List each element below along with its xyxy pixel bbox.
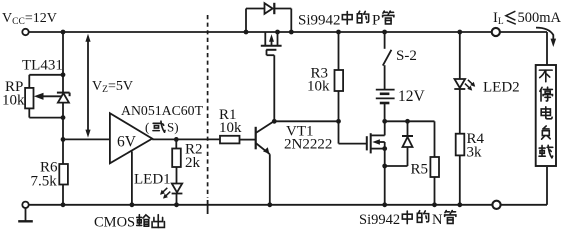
svg-text:500mA: 500mA: [518, 10, 562, 26]
wire: P-MOSFET gate lead jog: [266, 50, 268, 55]
wire: drain node right to R5: [385, 120, 435, 122]
svg-text:2N2222: 2N2222: [284, 137, 332, 153]
wire: comparator output to node: [152, 138, 176, 140]
load current direction arrow: [536, 28, 553, 41]
svg-text:TL431: TL431: [22, 58, 63, 74]
svg-text:6V: 6V: [117, 134, 137, 151]
node: D2 cathode junction: [405, 119, 410, 124]
wire: R4 bottom to ground rail: [459, 155, 461, 204]
label load text (vertical: bu ting dian fu zai): [539, 70, 552, 82]
svg-text:(: (: [145, 120, 149, 135]
wire: output node down to R2: [175, 139, 177, 148]
node: comparator output junction: [174, 137, 179, 142]
svg-text:CMOS: CMOS: [94, 215, 135, 231]
wire: drain node corner down to R5: [434, 121, 436, 157]
svg-text:LED1: LED1: [134, 172, 171, 188]
svg-text:Si9942: Si9942: [359, 212, 400, 228]
ground symbol: [25, 208, 27, 221]
node: VT1 emitter on ground rail: [267, 202, 272, 207]
node: N-MOSFET source on ground rail: [382, 202, 387, 207]
node: rail junction P-MOSFET drain stub: [275, 30, 280, 35]
LED LED2: [455, 79, 466, 88]
svg-text:7.5k: 7.5k: [31, 174, 58, 190]
diode D2 (body/protection): [407, 121, 409, 136]
wire: reference node down to R6: [62, 139, 64, 164]
switch S-2: [384, 32, 386, 49]
potentiometer RP body: [25, 88, 33, 109]
wire: battery minus to drain node: [384, 103, 386, 121]
wire: reference node to comparator input: [63, 138, 110, 140]
svg-text:AN051AC60T: AN051AC60T: [121, 103, 204, 118]
node: rail junction diode cathode return: [289, 30, 294, 35]
wire: rail down to TL431 cathode node: [62, 32, 64, 75]
terminal output right: [492, 201, 500, 209]
wire: N-MOSFET source down to ground rail: [384, 149, 386, 205]
wire: comparator ground pin: [131, 151, 133, 204]
wire: rail down to R3: [338, 32, 340, 70]
node: reference node (TL431/R6/comparator input): [61, 137, 66, 142]
transistor Q2 Si9942 N-channel MOSFET: [367, 133, 371, 153]
potentiometer RP wiper arrow: [42, 95, 62, 97]
svg-text:VCC=12V: VCC=12V: [2, 11, 57, 27]
wire: R5 bottom to ground rail: [434, 177, 436, 205]
node: VT1 collector junction: [272, 119, 277, 124]
svg-text:2k: 2k: [185, 155, 201, 171]
battery B1 12V: [384, 65, 386, 89]
svg-text:S-2: S-2: [396, 48, 417, 64]
wire: +12V top rail: [29, 31, 547, 33]
wire: RP bottom to TL431 anode line: [28, 108, 30, 117]
svg-text:IL: IL: [493, 10, 504, 27]
wire: R1 to VT1 base: [240, 139, 256, 141]
resistor R5 body: [430, 157, 439, 177]
node: rail junction to TL431 branch: [61, 30, 66, 35]
terminal ground left: [22, 202, 28, 208]
load box (uninterrupted load): [536, 65, 556, 166]
node: TL431 cathode junction: [61, 72, 66, 77]
node: R3 bottom junction: [336, 119, 341, 124]
svg-text:Si9942: Si9942: [298, 13, 341, 29]
diode D1 bypass across P-MOSFET: [245, 9, 247, 33]
transistor Q1 Si9942 P-channel MOSFET: [264, 32, 266, 46]
svg-text:LED2: LED2: [483, 80, 520, 96]
LED LED1: [172, 184, 182, 193]
wire: rail corner down into load: [546, 32, 548, 65]
wire: gate drive down and right to N-MOSFET gate: [338, 121, 340, 143]
boundary dashed line: [207, 15, 209, 198]
svg-text:12V: 12V: [398, 88, 426, 105]
svg-text:10k: 10k: [219, 120, 242, 136]
svg-text:S): S): [167, 120, 179, 135]
wire: R6 bottom to ground rail: [62, 185, 64, 205]
resistor R4 body: [456, 134, 465, 156]
node: R6 bottom on ground rail: [61, 202, 66, 207]
LED1 emission arrows: [160, 188, 170, 199]
node: comparator ground pin on rail: [130, 202, 135, 207]
node: R5 bottom on ground rail: [432, 202, 437, 207]
node: N-MOSFET drain junction: [382, 119, 387, 124]
svg-text:3k: 3k: [467, 145, 483, 161]
wire: R2 bottom to LED1: [176, 167, 178, 184]
wire: LED2 cathode to R4: [459, 89, 461, 134]
terminal Vcc input: [22, 29, 28, 35]
wire: collector node to R3 bottom node: [274, 120, 338, 122]
wire: rail down to LED2: [459, 32, 461, 79]
transistor VT1 2N2222: [255, 127, 257, 150]
node: source junction to diode anode: [382, 164, 387, 169]
wire: load bottom to ground rail: [546, 167, 548, 205]
resistor R3 body: [335, 70, 344, 91]
resistor R1 body: [220, 136, 240, 144]
wire: node left and down to RP top: [29, 74, 63, 76]
node: R4 bottom on ground rail: [457, 202, 462, 207]
svg-text:10k: 10k: [307, 79, 330, 95]
node: RP bottom / TL431 anode junction: [61, 115, 66, 120]
svg-text:10k: 10k: [2, 93, 25, 109]
node: LED1 cathode on ground rail: [174, 202, 179, 207]
node: rail junction S-2 top: [382, 30, 387, 35]
wire: output node to R1: [176, 138, 220, 140]
node: rail junction diode anode: [244, 30, 249, 35]
wire: VT1 emitter down to ground rail: [269, 154, 271, 205]
resistor R6 body: [59, 164, 68, 185]
svg-text:P: P: [372, 13, 380, 29]
svg-text:R5: R5: [411, 162, 429, 178]
terminal output top: [492, 28, 500, 36]
Vz=5V dimension arrow: [87, 39, 89, 134]
wire: R3 bottom to collector node: [338, 91, 340, 121]
TL431 shunt regulator U2 (zener-style symbol): [62, 75, 64, 93]
wire: ground bottom rail: [29, 204, 547, 206]
svg-text:VZ=5V: VZ=5V: [92, 79, 133, 95]
node: rail junction LED2 top: [457, 30, 462, 35]
op-amp U1 comparator AN051AC60T (6V) triangle: [110, 113, 152, 163]
wire: VT1 collector up to P-MOSFET gate: [273, 55, 275, 121]
resistor R2 body: [172, 149, 181, 168]
svg-text:N: N: [432, 212, 443, 228]
LED2 emission arrows: [465, 80, 475, 91]
node: rail junction R3 top: [336, 30, 341, 35]
